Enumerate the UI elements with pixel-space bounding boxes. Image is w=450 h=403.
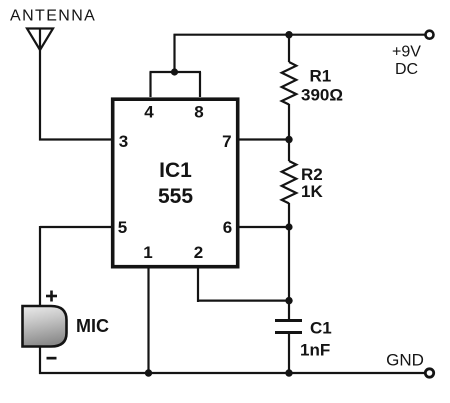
svg-text:7: 7: [222, 132, 231, 151]
wire top supply rail: [174, 34, 426, 36]
svg-text:MIC: MIC: [76, 316, 109, 336]
svg-text:ANTENNA: ANTENNA: [10, 8, 96, 25]
wire ground rail: [39, 372, 425, 374]
node junction of pins 4-8 bracket: [171, 68, 178, 75]
wire pin 2 down: [197, 266, 199, 302]
wire mic bottom to ground rail: [39, 347, 41, 374]
svg-text:390Ω: 390Ω: [301, 86, 343, 105]
wire pin 8 up: [199, 72, 201, 97]
capacitor C1: [275, 321, 302, 333]
wire pin 7 to R1/R2 junction: [238, 138, 289, 140]
svg-text:8: 8: [194, 103, 203, 122]
svg-text:1: 1: [143, 243, 152, 262]
wire C1 bottom plate to ground rail: [288, 334, 290, 373]
wire down to mic plus: [39, 226, 41, 306]
wire from bracket up to top rail: [173, 34, 175, 72]
node pin2 / C1 top: [285, 297, 292, 304]
node top rail to R1: [285, 31, 292, 38]
wire pin 1 down: [147, 266, 149, 373]
wire pin 5 to mic: [40, 226, 111, 228]
svg-text:R1: R1: [310, 67, 332, 86]
wire pin 4 up: [149, 72, 151, 97]
svg-text:6: 6: [223, 218, 232, 237]
svg-text:DC: DC: [395, 61, 418, 78]
svg-text:1nF: 1nF: [300, 341, 330, 360]
svg-text:1K: 1K: [301, 182, 323, 201]
node C1 bottom on ground rail: [285, 369, 292, 376]
terminal GND: [425, 369, 433, 377]
wire bracket joining pins 4 and 8: [150, 71, 202, 73]
svg-text:+9V: +9V: [392, 44, 421, 61]
svg-text:C1: C1: [310, 319, 332, 338]
label plus sign of MIC: [46, 291, 57, 302]
wire antenna to pin 3: [39, 138, 112, 140]
node pin 1 on ground rail: [145, 369, 152, 376]
IC U1 555 timer body IC1: [113, 99, 238, 267]
label minus sign of MIC: [47, 357, 57, 360]
svg-text:5: 5: [118, 218, 127, 237]
wire pin 2 to C1 node: [197, 300, 289, 302]
svg-text:GND: GND: [386, 351, 424, 370]
wire pin 6 to R2 bottom: [238, 226, 289, 228]
svg-text:555: 555: [158, 185, 193, 208]
resistor R1: [282, 35, 297, 140]
svg-text:4: 4: [144, 103, 154, 122]
wire C1 node to C1 top plate: [288, 301, 290, 319]
wire R2 bottom down to C1 node: [288, 227, 290, 301]
node R1 bottom pin 7: [285, 136, 292, 143]
svg-text:3: 3: [119, 132, 128, 151]
terminal +9V: [426, 31, 434, 39]
resistor R2: [282, 140, 297, 227]
antenna symbol: [27, 29, 53, 51]
svg-text:IC1: IC1: [159, 159, 192, 182]
wire antenna mast down: [39, 50, 41, 141]
node R2 bottom pin 6: [285, 223, 292, 230]
svg-text:2: 2: [194, 243, 203, 262]
